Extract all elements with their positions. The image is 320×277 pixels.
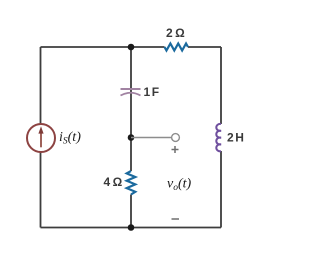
wire right branch lower segment [220, 151, 222, 228]
svg-text:iS(t): iS(t) [59, 130, 81, 147]
wire right branch upper segment [220, 47, 222, 124]
svg-text:4 Ω: 4 Ω [104, 175, 123, 189]
node dot top middle [128, 44, 135, 51]
svg-text:2 H: 2 H [227, 131, 244, 145]
wire resistor 2ohm right end to top-right corner [188, 46, 221, 48]
node dot middle (terminal tap) [128, 134, 135, 141]
current source arrow [40, 132, 42, 147]
svg-text:vo(t): vo(t) [167, 177, 192, 194]
plus sign [172, 146, 179, 153]
capacitor C 1F bottom curved plate [121, 93, 141, 96]
resistor R 2ohm zigzag [165, 44, 189, 51]
wire left branch upper segment [40, 47, 42, 125]
wire middle branch lower [130, 195, 132, 228]
minus sign [172, 218, 180, 220]
wire top-left to resistor 2ohm left end [41, 46, 165, 48]
wire bottom [41, 227, 222, 229]
node dot bottom middle [128, 224, 135, 231]
svg-text:1 F: 1 F [144, 85, 159, 99]
wire middle branch upper (through capacitor) [130, 47, 132, 171]
inductor L 2H coil [216, 124, 221, 151]
wire gray tap to open terminal [131, 137, 172, 139]
open terminal circle [172, 134, 180, 142]
wire left branch lower segment [40, 152, 42, 228]
current source iS circle [27, 124, 55, 152]
resistor R 4ohm zigzag [127, 171, 136, 195]
svg-text:2 Ω: 2 Ω [166, 26, 185, 40]
capacitor C 1F top plate [121, 88, 141, 90]
